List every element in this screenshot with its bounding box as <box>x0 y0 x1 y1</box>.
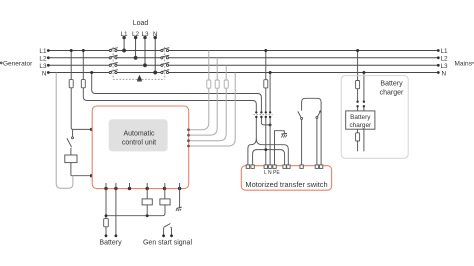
wire N loop gray <box>56 73 73 189</box>
relay coil K3 <box>160 183 170 213</box>
svg-text:Generator: Generator <box>3 60 33 67</box>
bus L1 (generator-mains) <box>48 50 439 52</box>
motor aux contact with arrow <box>316 112 320 166</box>
wire load L3 drop <box>144 36 147 67</box>
mains sense wire L3 gray <box>190 65 227 140</box>
svg-text:N: N <box>442 71 447 78</box>
mains L1 tap to transfer contact <box>265 51 267 112</box>
svg-text:control unit: control unit <box>122 140 156 147</box>
junction dot c2-c4 <box>269 124 272 127</box>
svg-text:L N PE: L N PE <box>264 170 280 176</box>
sense fuse F3 <box>207 80 211 88</box>
svg-text:Battery: Battery <box>99 240 122 247</box>
svg-text:charger: charger <box>349 122 372 129</box>
fuse F9 <box>104 219 109 227</box>
ACU box U1 <box>92 106 189 189</box>
relay coil K2 <box>142 183 152 216</box>
mains N tap to transfer contact <box>269 73 271 112</box>
svg-text:Motorized transfer switch: Motorized transfer switch <box>245 180 327 189</box>
junction dot c3 fan <box>264 148 267 151</box>
ACU bottom terminal dots <box>104 187 181 190</box>
wire load N drop <box>154 36 157 74</box>
junction dots battery common <box>105 214 149 217</box>
wire load L1 drop <box>123 36 126 52</box>
wire coil to ACU lower terminal <box>71 163 91 176</box>
svg-text:charger: charger <box>380 90 404 97</box>
label Mains <box>455 60 474 67</box>
fuse F8 <box>356 133 360 141</box>
mains sense wire L2 gray <box>190 58 218 135</box>
ground symbol bottom <box>176 207 182 211</box>
aux contact K0 <box>67 129 74 155</box>
charger DC output wires <box>358 129 364 151</box>
charger plug contacts <box>356 101 365 108</box>
generator L1 tap wire to ACU <box>71 51 91 130</box>
bus N <box>48 72 439 74</box>
battery end dots <box>105 234 118 237</box>
limit switch arch <box>298 98 321 165</box>
battery common wire <box>106 213 165 216</box>
bus L3 <box>48 64 439 66</box>
generator L1 fused rail to transfer contact <box>83 51 256 112</box>
arrowhead on aux contact <box>319 110 321 113</box>
sense fuse F4 <box>215 80 219 88</box>
junction dot charger L <box>356 49 359 52</box>
fuse F6 <box>264 80 268 88</box>
stub terminal 3 <box>129 183 131 189</box>
svg-text:Mains: Mains <box>455 60 473 67</box>
sense fuse F5 <box>224 80 228 88</box>
wire c4 to terminal N <box>269 118 271 165</box>
svg-text:Battery: Battery <box>350 114 371 121</box>
junction dot gen N tap <box>90 71 93 74</box>
battery minus wire <box>115 183 117 236</box>
generator N rail to transfer contact <box>92 73 262 112</box>
ACU left terminal dot lower <box>90 174 93 177</box>
svg-text:Automatic: Automatic <box>123 131 155 138</box>
fuse F2 <box>81 80 85 88</box>
transfer row linkage dashed <box>254 114 273 116</box>
battery charger unit box <box>346 111 375 129</box>
svg-text:L3: L3 <box>441 63 449 70</box>
svg-text:L1: L1 <box>39 48 47 55</box>
svg-text:Gen start signal: Gen start signal <box>143 240 192 247</box>
junction dot gen L1 tap <box>70 49 73 52</box>
wire c2 join c4 <box>261 118 270 125</box>
mechanical linkage dashed left <box>112 47 114 79</box>
fuse F1 <box>69 80 73 88</box>
bus end dots right <box>437 49 440 74</box>
fuse F7 <box>356 81 360 89</box>
bus L2 <box>48 57 439 59</box>
battery charger container <box>341 76 408 159</box>
changeover switch Q2 mains-side contacts <box>161 48 170 74</box>
ACU label plate <box>109 119 168 151</box>
ground PE symbol <box>281 134 287 138</box>
mechanical linkage dashed right <box>164 47 166 79</box>
junction dot mains N tap <box>269 71 272 74</box>
svg-text:Battery: Battery <box>380 81 403 88</box>
changeover switch Q1 generator-side contacts <box>109 48 117 74</box>
label Generator <box>0 60 33 67</box>
gen start terminal dots <box>162 234 173 237</box>
MTS box <box>241 166 331 191</box>
svg-text:L2: L2 <box>39 56 47 63</box>
mechanical linkage dashed horizontal <box>113 78 165 80</box>
battery charger L tap <box>357 51 359 111</box>
junction dot charger N <box>362 71 365 74</box>
mains sense wire N gray <box>190 73 236 147</box>
ground wire bottom <box>179 183 181 207</box>
junction dot mains L1 tap <box>264 49 267 52</box>
battery charger N tap <box>363 73 365 111</box>
wire c1 fan <box>248 118 288 165</box>
ACU left terminal dot upper <box>90 128 93 131</box>
wire load L2 drop <box>134 36 137 59</box>
relay coil K1 <box>65 155 77 163</box>
gen start contact <box>164 224 172 236</box>
wire c3 fan <box>253 118 285 165</box>
svg-text:N: N <box>42 70 47 77</box>
svg-text:Load: Load <box>133 20 149 27</box>
junction dot gen L1 tap2 <box>82 49 85 52</box>
svg-text:L2: L2 <box>441 56 449 63</box>
transfer plug contacts row <box>255 111 271 118</box>
MTS terminals <box>246 165 323 169</box>
svg-text:L1: L1 <box>441 48 449 55</box>
battery plus wire <box>105 183 107 236</box>
svg-text:L3: L3 <box>39 63 47 70</box>
interlock symbol <box>137 76 142 81</box>
bus end dots left <box>47 49 50 74</box>
ACU right terminal dots gray <box>187 128 190 147</box>
mains sense wire L1 gray <box>190 51 209 130</box>
wire PE with ground <box>275 131 285 166</box>
